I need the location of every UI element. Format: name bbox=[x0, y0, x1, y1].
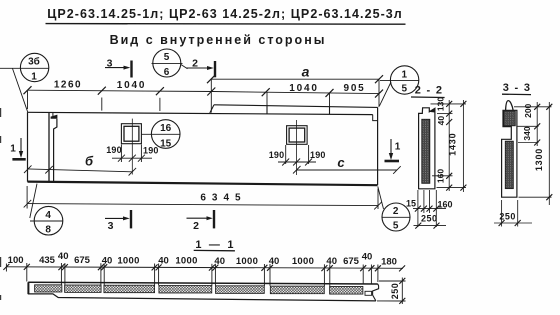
section 1-1 strip outline bbox=[28, 282, 378, 301]
svg-text:5: 5 bbox=[164, 52, 170, 63]
svg-text:200: 200 bbox=[523, 103, 533, 117]
section mark 2 bottom bbox=[187, 210, 215, 232]
dims 190 O2 bbox=[278, 145, 316, 166]
strip hatch segments bbox=[35, 285, 363, 294]
leader c5 bbox=[30, 184, 37, 218]
marker circle 5/6 bbox=[152, 49, 188, 78]
section 2-2 bottom dims bbox=[413, 190, 446, 227]
title 3-3 bbox=[502, 82, 531, 95]
marker circle 4/8 bbox=[30, 184, 63, 236]
1-1 dim ticks bbox=[3, 264, 405, 272]
section 3-3 core bbox=[505, 141, 513, 188]
svg-text:1 — 1: 1 — 1 bbox=[195, 239, 235, 251]
opening O1 bbox=[121, 124, 141, 144]
svg-text:1260: 1260 bbox=[54, 80, 82, 91]
svg-text:1: 1 bbox=[31, 72, 37, 83]
svg-text:40: 40 bbox=[102, 255, 113, 266]
svg-text:675: 675 bbox=[74, 255, 91, 266]
dim c inner bbox=[293, 166, 401, 174]
opening O2 bbox=[287, 126, 308, 145]
svg-text:190: 190 bbox=[143, 145, 159, 155]
section mark 3 bottom bbox=[105, 210, 131, 232]
1-1 dim texts bbox=[8, 251, 397, 267]
marker circle 1/5 bbox=[380, 66, 419, 106]
section 3-3 bottom dims bbox=[494, 200, 532, 227]
top dimension line bbox=[28, 79, 380, 113]
svg-text:1040: 1040 bbox=[289, 83, 318, 94]
svg-text:Вид с внутренней стороны: Вид с внутренней стороны bbox=[110, 33, 327, 47]
top dim ticks bbox=[24, 86, 384, 97]
left rib bbox=[49, 112, 57, 182]
svg-text:160: 160 bbox=[436, 169, 446, 183]
centerline O2 bbox=[296, 120, 298, 175]
section-1 mark right bbox=[385, 139, 401, 161]
svg-text:ЦР2-63.14.25-1л; ЦР2-63 14.25-: ЦР2-63.14.25-1л; ЦР2-63 14.25-2л; ЦР2-63… bbox=[47, 7, 403, 21]
svg-text:6345: 6345 bbox=[200, 193, 246, 204]
svg-text:3б: 3б bbox=[28, 56, 40, 68]
marker circle 16/15 bbox=[141, 120, 180, 150]
svg-text:1430: 1430 bbox=[448, 133, 458, 156]
section 3-3 lifting hook bbox=[506, 101, 513, 111]
svg-text:190: 190 bbox=[106, 145, 122, 155]
svg-text:2: 2 bbox=[193, 220, 199, 232]
strip joint 1 bbox=[266, 106, 268, 114]
section 3-3 body bbox=[502, 110, 517, 197]
svg-text:40: 40 bbox=[158, 256, 169, 267]
svg-text:1300: 1300 bbox=[534, 148, 544, 171]
svg-text:1000: 1000 bbox=[117, 255, 139, 266]
svg-text:б: б bbox=[85, 154, 94, 169]
svg-text:1000: 1000 bbox=[236, 256, 258, 267]
title line 1 bbox=[46, 7, 406, 24]
svg-text:15: 15 bbox=[406, 199, 416, 209]
dim 250 right of 1-1 bbox=[377, 278, 406, 305]
dim line a bbox=[211, 78, 379, 80]
svg-text:675: 675 bbox=[343, 256, 360, 267]
svg-text:250: 250 bbox=[421, 214, 438, 224]
svg-text:a: a bbox=[302, 64, 310, 80]
title line 2 bbox=[110, 33, 327, 47]
svg-text:1: 1 bbox=[10, 144, 16, 155]
svg-text:130: 130 bbox=[436, 97, 446, 111]
svg-text:190: 190 bbox=[269, 150, 285, 160]
title 1-1 bbox=[194, 239, 236, 251]
svg-text:1040: 1040 bbox=[117, 80, 146, 91]
section 2-2 right dims bbox=[431, 100, 467, 192]
marker circle 3b/1 bbox=[0, 53, 49, 112]
rib anchor mark bbox=[51, 115, 58, 119]
svg-text:8: 8 bbox=[45, 225, 51, 236]
section 2-2 core bbox=[422, 119, 430, 183]
panel outline bbox=[28, 107, 378, 185]
leader c2 bbox=[181, 65, 188, 69]
centerline O1 bbox=[131, 119, 133, 175]
svg-text:1: 1 bbox=[402, 69, 408, 80]
dim 6345 bbox=[24, 186, 382, 209]
section mark 3 top bbox=[105, 58, 132, 78]
marker circle 2/5 bbox=[378, 187, 410, 232]
svg-text:40: 40 bbox=[58, 251, 69, 262]
section 3-3 right dims bbox=[514, 102, 552, 205]
svg-text:4: 4 bbox=[45, 210, 51, 221]
svg-text:905: 905 bbox=[343, 83, 365, 94]
svg-text:190: 190 bbox=[310, 150, 326, 160]
svg-text:3 - 3: 3 - 3 bbox=[503, 82, 532, 94]
svg-text:40: 40 bbox=[269, 256, 280, 267]
svg-text:16: 16 bbox=[160, 123, 172, 134]
leader c1 bbox=[13, 69, 28, 113]
section 3-3 top block hatch bbox=[504, 111, 516, 126]
svg-text:40: 40 bbox=[436, 116, 446, 126]
svg-text:180: 180 bbox=[381, 256, 397, 267]
leader c6 bbox=[378, 187, 384, 210]
svg-text:c: c bbox=[337, 155, 345, 170]
section mark 2 top bbox=[186, 58, 215, 78]
svg-text:40: 40 bbox=[362, 252, 373, 263]
strip joint 2 bbox=[329, 107, 331, 115]
title 2-2 bbox=[411, 85, 445, 98]
section-1 mark left bbox=[10, 138, 25, 159]
svg-text:1: 1 bbox=[395, 142, 401, 153]
svg-text:6: 6 bbox=[164, 67, 170, 78]
section 2-2 body bbox=[419, 108, 435, 189]
svg-text:5: 5 bbox=[402, 84, 408, 95]
section 2-2 wedge bbox=[429, 108, 435, 112]
svg-text:250: 250 bbox=[390, 283, 400, 300]
parapet strip bbox=[210, 105, 378, 115]
svg-text:5: 5 bbox=[393, 221, 399, 232]
svg-text:40: 40 bbox=[326, 256, 337, 267]
svg-text:3: 3 bbox=[108, 220, 114, 232]
svg-text:2: 2 bbox=[393, 206, 399, 217]
dim b inner bbox=[24, 165, 136, 175]
svg-text:15: 15 bbox=[160, 138, 172, 149]
svg-text:340: 340 bbox=[522, 126, 532, 140]
dims 190 O1 bbox=[112, 145, 152, 163]
leader c3 bbox=[380, 82, 392, 106]
svg-text:1000: 1000 bbox=[175, 256, 197, 267]
svg-text:250: 250 bbox=[499, 212, 516, 222]
svg-text:2 - 2: 2 - 2 bbox=[415, 85, 444, 97]
svg-text:40: 40 bbox=[214, 256, 225, 267]
svg-text:160: 160 bbox=[437, 199, 452, 209]
svg-text:100: 100 bbox=[8, 255, 24, 266]
edge artifacts bbox=[0, 108, 2, 300]
end plug bbox=[365, 291, 372, 295]
svg-text:435: 435 bbox=[39, 255, 56, 266]
1-1 dim line bbox=[6, 263, 403, 286]
svg-text:1000: 1000 bbox=[292, 256, 314, 267]
